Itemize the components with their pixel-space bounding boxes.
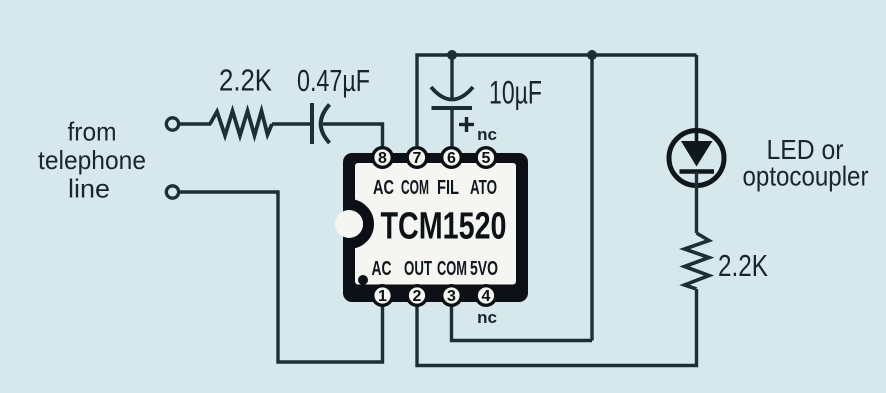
wire: upper terminal to resistor xyxy=(180,122,212,125)
wire: top rail from pin 7 to LED xyxy=(417,55,697,146)
capacitor 10uF (curved top plate) xyxy=(431,87,473,100)
svg-text:2.2K: 2.2K xyxy=(219,63,272,98)
wire: resistor to capacitor xyxy=(272,122,310,125)
pin 5 xyxy=(476,148,496,168)
svg-text:OUT: OUT xyxy=(404,258,432,280)
svg-text:ATO: ATO xyxy=(470,177,497,199)
svg-text:2.2K: 2.2K xyxy=(718,248,768,283)
node: from telephone line label xyxy=(38,117,146,204)
svg-text:optocoupler: optocoupler xyxy=(743,161,869,192)
wire: rail down to 10uF capacitor xyxy=(450,55,453,99)
terminal: lower telephone line input xyxy=(166,186,178,198)
capacitor 0.47uF (left plate) xyxy=(310,103,314,144)
svg-text:COM: COM xyxy=(401,177,429,199)
wire: capacitor to pin 8 xyxy=(323,124,383,146)
svg-text:COM: COM xyxy=(437,258,467,280)
pin 3 xyxy=(442,286,462,306)
svg-text:nc: nc xyxy=(477,308,497,327)
svg-text:7: 7 xyxy=(413,150,422,167)
pin 7 xyxy=(407,148,427,168)
capacitor 10uF (straight bottom plate) xyxy=(432,106,473,110)
capacitor 0.47uF (curved plate) xyxy=(321,105,330,144)
pin 4 xyxy=(476,286,496,306)
svg-text:line: line xyxy=(68,174,110,204)
svg-text:1: 1 xyxy=(378,288,387,305)
IC U1 TCM1520 body xyxy=(343,153,528,302)
polarity mark + for 10uF xyxy=(459,117,474,132)
svg-text:nc: nc xyxy=(477,125,497,144)
terminal: upper telephone line input xyxy=(166,118,178,130)
wire: LED cathode down to resistor xyxy=(695,172,698,234)
wire: pin 2 to right resistor bottom xyxy=(417,289,697,366)
pin 1 xyxy=(373,286,393,306)
svg-text:AC: AC xyxy=(373,177,394,199)
svg-text:8: 8 xyxy=(378,150,387,167)
label: LED or optocoupler xyxy=(743,134,869,192)
pin function labels bottom: AC OUT COM 5VO xyxy=(372,258,499,280)
notch of U1 xyxy=(349,205,369,244)
wire: rail corner down to LED xyxy=(695,55,698,131)
svg-text:5VO: 5VO xyxy=(470,258,498,280)
svg-text:4: 4 xyxy=(482,288,491,305)
svg-text:6: 6 xyxy=(447,150,456,167)
LED D1 (LED or optocoupler) xyxy=(669,131,724,186)
pin 2 xyxy=(407,286,427,306)
svg-text:AC: AC xyxy=(372,258,392,280)
resistor 2.2K (series input) xyxy=(210,111,272,136)
pin 1 indicator dot xyxy=(358,275,368,285)
svg-text:FIL: FIL xyxy=(437,177,459,199)
svg-text:TCM1520: TCM1520 xyxy=(381,206,507,248)
svg-text:from: from xyxy=(68,117,117,147)
svg-text:0.47µF: 0.47µF xyxy=(297,63,370,98)
svg-text:10µF: 10µF xyxy=(489,75,542,111)
node: junction dot at 10uF cap xyxy=(447,50,457,60)
wire: 10uF capacitor to pin 6 xyxy=(450,110,453,146)
svg-text:3: 3 xyxy=(447,288,456,305)
wire: pin 3 horizontal xyxy=(452,306,593,341)
node: junction dot at pin-3 riser xyxy=(587,50,597,60)
pin function labels top: AC COM FIL ATO xyxy=(373,177,497,199)
pin 8 xyxy=(373,148,393,168)
wire: lower terminal to pin 1 xyxy=(180,192,383,362)
svg-text:5: 5 xyxy=(482,150,491,167)
pin 6 xyxy=(442,148,462,168)
svg-text:2: 2 xyxy=(413,288,422,305)
svg-text:telephone: telephone xyxy=(38,145,146,175)
wire: junction down to pin 3 line xyxy=(590,55,593,341)
resistor 2.2K (LED current limit) xyxy=(685,233,710,289)
